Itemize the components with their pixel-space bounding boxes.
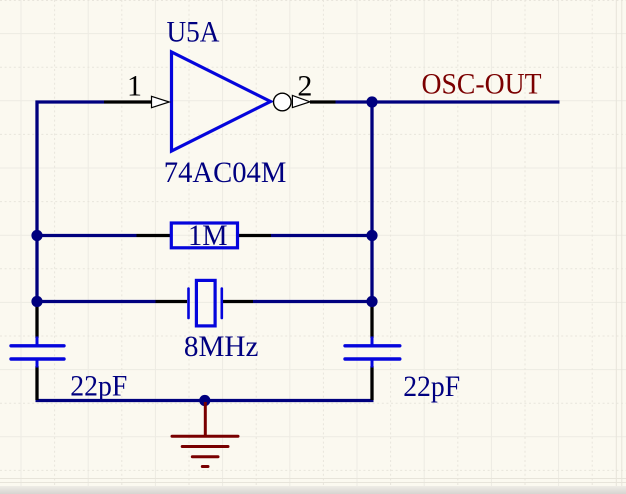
ground: bar 2	[182, 445, 228, 448]
crystal left electrode	[187, 289, 190, 319]
window status-bar strip	[0, 486, 626, 494]
svg-text:22pF: 22pF	[70, 369, 127, 402]
svg-text:8MHz: 8MHz	[184, 330, 259, 363]
pin wire: resistor left pin	[137, 234, 171, 237]
capacitor C1 top plate	[11, 344, 64, 347]
crystal Y1 body rectangle	[196, 280, 215, 326]
ground: bar 3	[192, 455, 218, 458]
pin wire: right cap bottom pin	[370, 366, 373, 400]
svg-text:2: 2	[297, 69, 312, 102]
wire: resistor row right	[271, 234, 372, 237]
inverter U5A body (74AC04M)	[172, 52, 271, 151]
svg-text:74AC04M: 74AC04M	[164, 156, 286, 189]
svg-text:1: 1	[127, 69, 142, 102]
capacitor C2 top lead stub	[371, 337, 374, 345]
junction dot right rail / resistor row	[366, 230, 377, 241]
junction dot bottom rail / ground	[199, 395, 210, 406]
resistor R1 body (1M)	[171, 223, 237, 248]
wire: input horizontal from left rail	[36, 100, 105, 103]
svg-text:22pF: 22pF	[403, 370, 460, 403]
wire: output to OSC-OUT	[336, 100, 560, 103]
ground: bar 1	[172, 435, 238, 438]
pin 1 marker arrow	[152, 96, 170, 107]
wire: resistor row left	[37, 234, 137, 237]
pin wire: crystal left pin	[156, 300, 188, 303]
junction dot left rail / crystal row	[31, 296, 42, 307]
junction dot right rail / top row	[366, 96, 377, 107]
capacitor C1 bottom lead stub	[36, 360, 39, 368]
svg-text:1M: 1M	[188, 219, 228, 252]
capacitor C2 top plate	[345, 344, 400, 347]
ground: bar 4	[202, 465, 208, 468]
crystal right electrode	[221, 289, 224, 319]
wire: crystal row right	[253, 300, 372, 303]
pin wire: crystal right pin	[223, 300, 253, 303]
capacitor C2 bottom plate	[345, 357, 400, 360]
svg-text:OSC-OUT: OSC-OUT	[422, 67, 542, 100]
capacitor C1 bottom plate	[11, 357, 64, 360]
pin wire: resistor right pin	[239, 234, 272, 237]
junction dot right rail / crystal row	[366, 296, 377, 307]
capacitor C2 bottom lead stub	[371, 360, 374, 368]
capacitor C1 top lead stub	[36, 337, 39, 345]
inverter U5A output bubble	[274, 93, 292, 111]
wire: bottom rail	[36, 399, 374, 402]
pin wire: U5A input pin (black)	[104, 100, 152, 103]
svg-text:U5A: U5A	[167, 15, 220, 48]
pin wire: right cap top pin	[370, 303, 373, 338]
pin 2 marker arrow	[292, 95, 310, 107]
wire: crystal row left	[37, 300, 156, 303]
pin wire: U5A output pin (black)	[310, 100, 336, 103]
ground: stem	[204, 402, 207, 436]
pin wire: left cap top pin	[35, 303, 38, 338]
wire: left vertical rail	[35, 101, 38, 304]
pin wire: left cap bottom pin	[35, 366, 38, 400]
junction dot left rail / resistor row	[31, 230, 42, 241]
wire: right vertical rail	[370, 101, 373, 304]
